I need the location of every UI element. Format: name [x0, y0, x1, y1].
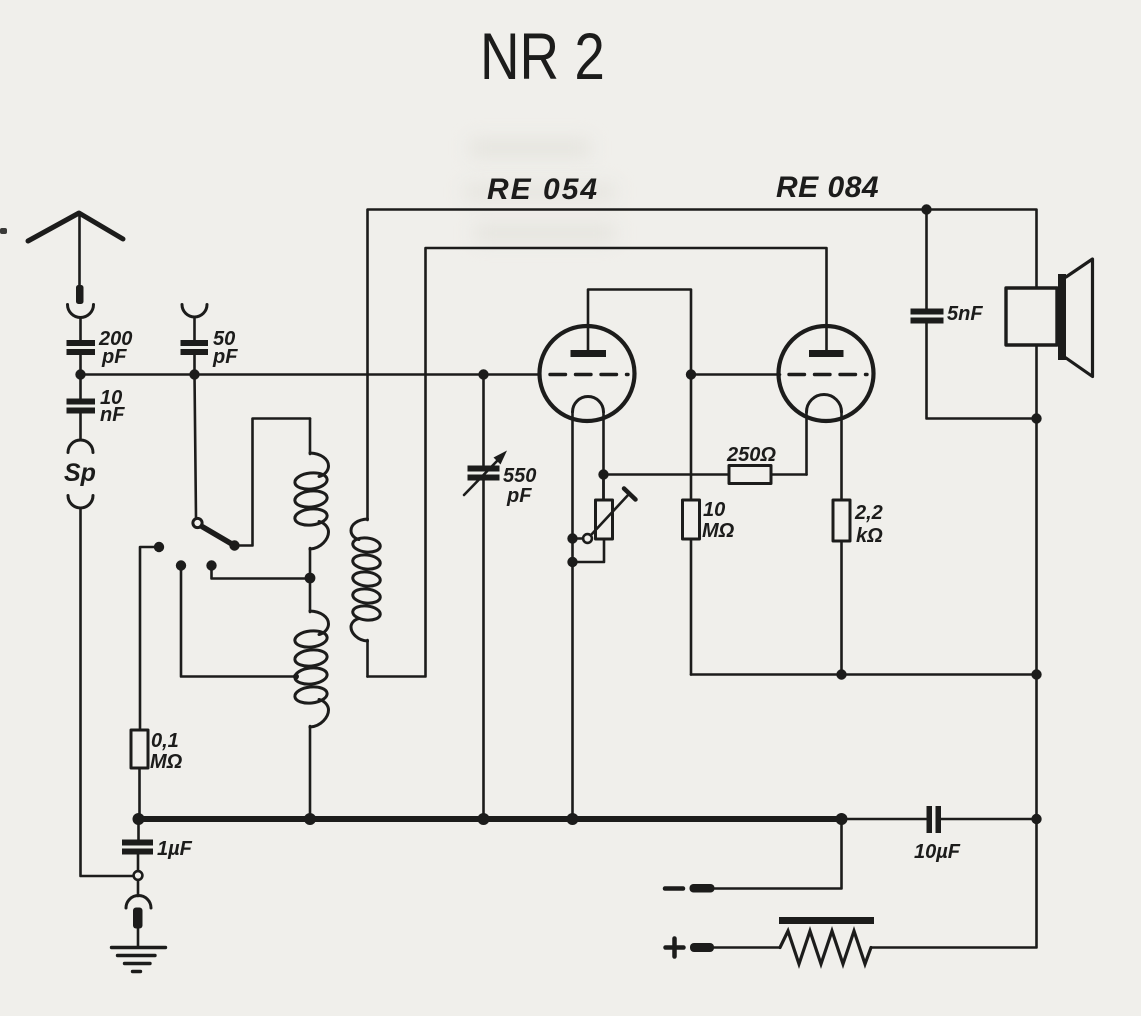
switch contact right [206, 560, 216, 570]
wire [927, 323, 1037, 419]
wire top rail to speaker [368, 210, 1037, 521]
capacitor 10nF [79, 375, 82, 400]
tube V2 RE084 envelope [779, 326, 874, 421]
svg-text:MΩ: MΩ [702, 520, 735, 542]
wire [79, 355, 82, 375]
heater resistor bar [779, 917, 874, 924]
plug pin (earth) [133, 908, 143, 929]
wire filament coupling [604, 473, 730, 476]
node [1031, 669, 1041, 679]
tube V1 grid (dashed) [550, 373, 628, 376]
switch contact middle [176, 560, 186, 570]
wire [690, 375, 693, 501]
node [567, 557, 577, 567]
svg-text:kΩ: kΩ [856, 525, 883, 547]
node bus dots [133, 813, 145, 825]
speaker driver bar [1058, 274, 1066, 360]
coil L2 feedback [351, 519, 368, 540]
node 50pF junction [189, 369, 199, 379]
wire Sp down to earth terminal [81, 509, 134, 877]
ground symbol [112, 946, 166, 949]
minus terminal [665, 886, 683, 891]
resistor 0.1 MOhm [131, 730, 148, 768]
rheostat arrow [591, 494, 629, 535]
capacitor 200pF [67, 340, 96, 346]
wire speaker column [871, 345, 1037, 948]
tube V1 anode [571, 350, 607, 357]
wire plus to heater resistor [714, 946, 780, 949]
capacitor 50pF [181, 340, 209, 346]
capacitor 5nF [911, 309, 944, 315]
earth terminal circle [134, 871, 143, 880]
svg-text:NR 2: NR 2 [480, 19, 605, 93]
switch pivot [193, 518, 202, 527]
wire bottom return [691, 673, 1037, 676]
wire ground bus (thick) [139, 816, 842, 822]
speaker magnet [1006, 288, 1057, 345]
wire antenna lead [78, 214, 81, 285]
svg-text:250Ω: 250Ω [726, 444, 776, 466]
socket (antenna) [68, 305, 94, 318]
speaker cone [1066, 259, 1093, 377]
plus terminal [666, 945, 684, 950]
svg-text:pF: pF [212, 346, 238, 368]
wire [193, 355, 196, 375]
socket (2nd antenna input) [182, 305, 207, 317]
svg-text:2,2: 2,2 [854, 502, 883, 524]
rheostat wiper terminal [583, 534, 592, 543]
wire contact middle to coil tap [181, 566, 295, 677]
wire rheostat bottom [573, 539, 605, 562]
svg-text:pF: pF [101, 346, 127, 368]
node [836, 669, 846, 679]
wire [690, 539, 693, 675]
socket (earth) [126, 896, 151, 909]
tube V1 filament [573, 397, 604, 413]
svg-text:10: 10 [703, 499, 725, 521]
node V2 grid junction [686, 369, 696, 379]
coil L1 upper section [309, 419, 312, 455]
tube V2 filament [807, 395, 842, 412]
wire [137, 855, 140, 872]
wire down to switch [195, 375, 197, 518]
wire contact right to coil mid [212, 566, 311, 579]
switch arm end dot [229, 540, 239, 550]
wire minus to bus [714, 819, 842, 889]
node [1031, 814, 1041, 824]
scan speck [0, 228, 7, 234]
tube V2 anode [809, 350, 844, 357]
wire [79, 414, 82, 441]
svg-text:10µF: 10µF [914, 841, 961, 863]
capacitor 550pF variable [468, 466, 500, 472]
node antenna junction [75, 369, 85, 379]
wire 5nF branch [925, 210, 928, 310]
svg-text:RE 084: RE 084 [776, 171, 879, 204]
wire contact left to resistor [140, 547, 159, 730]
capacitor 10uF [927, 806, 933, 833]
switch arm [202, 527, 231, 544]
wire [79, 318, 82, 342]
wire arm to coil top [235, 419, 311, 546]
wire [482, 480, 485, 819]
wire [137, 928, 140, 946]
wire to V2 grid [691, 373, 780, 376]
node filament junction [598, 469, 608, 479]
svg-text:RE 054: RE 054 [487, 173, 599, 206]
svg-text:1µF: 1µF [157, 838, 193, 860]
wire main grid line [81, 373, 540, 376]
node coil centre tap junction [305, 573, 316, 584]
wire 550pF branch [482, 375, 485, 466]
wire V2 filament right leg [840, 412, 843, 500]
svg-text:nF: nF [100, 404, 125, 426]
node [1031, 413, 1041, 423]
wire V1 filament left leg [571, 412, 574, 819]
resistor 250 Ohm [729, 466, 771, 484]
wire V1 filament right leg [602, 412, 605, 500]
node top rail / 5nF [921, 204, 931, 214]
wire [193, 318, 196, 342]
plug pin (antenna) [76, 285, 84, 304]
svg-text:5nF: 5nF [947, 303, 983, 325]
node [478, 369, 488, 379]
resistor 2.2 kOhm [833, 500, 850, 541]
capacitor 1uF [137, 819, 140, 840]
wire [771, 473, 807, 476]
resistor 10 MOhm [683, 500, 700, 539]
svg-text:0,1: 0,1 [151, 730, 179, 752]
tube V1 RE054 envelope [540, 326, 635, 421]
svg-text:550: 550 [503, 465, 536, 487]
wire [840, 541, 843, 675]
antenna [28, 213, 123, 241]
wire [137, 880, 140, 896]
svg-text:MΩ: MΩ [150, 751, 183, 773]
wire [842, 818, 928, 821]
wire [941, 818, 1037, 821]
socket upper (Sp) [68, 440, 93, 453]
wire [138, 768, 141, 819]
wire anode RE084 feedback loop [368, 248, 827, 677]
heater resistor (zigzag) [780, 931, 871, 964]
rheostat body [602, 475, 605, 501]
node [567, 533, 577, 543]
svg-text:Sp: Sp [64, 459, 96, 487]
switch contact left [154, 542, 164, 552]
tube V2 grid (dashed) [789, 373, 867, 376]
coil L1 lower section [310, 611, 329, 635]
wire V1 anode lead [588, 290, 691, 375]
socket lower (Sp) [68, 496, 93, 509]
svg-text:pF: pF [506, 485, 532, 507]
